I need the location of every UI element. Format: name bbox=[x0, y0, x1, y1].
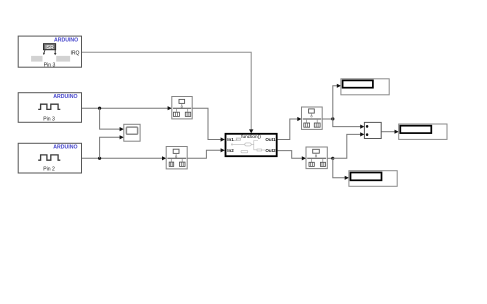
wire Pin2 to block C bbox=[82, 156, 167, 160]
wire Pin3 to block A bbox=[82, 106, 172, 110]
wire junction to scope in1 bbox=[100, 108, 124, 131]
svg-text:ARDUINO: ARDUINO bbox=[54, 38, 78, 44]
block D rate transition right-top bbox=[302, 107, 323, 129]
wire junction to Display1 bbox=[333, 84, 341, 119]
svg-text:In1: In1 bbox=[227, 137, 234, 142]
block Digital Input Pin 3 bbox=[18, 93, 81, 123]
block C rate transition bottom bbox=[166, 147, 187, 169]
block Display2 bbox=[399, 124, 447, 139]
wire IRQ to trigger bbox=[82, 52, 251, 130]
svg-text:Pin 2: Pin 2 bbox=[43, 167, 55, 173]
block Display3 bbox=[349, 171, 397, 187]
wire block D to junction bbox=[322, 118, 333, 120]
svg-text:Pin 3: Pin 3 bbox=[43, 116, 55, 122]
junction node E out bbox=[331, 157, 334, 160]
junction node Pin3 bbox=[98, 107, 101, 110]
wire mux to Display2 bbox=[381, 130, 398, 134]
block B scope bbox=[124, 124, 140, 141]
wire junction to Display3 bbox=[333, 158, 349, 180]
wire block C to In2 bbox=[187, 148, 225, 158]
junction node Pin2 bbox=[98, 157, 101, 160]
block Digital Input Pin 2 bbox=[18, 143, 81, 173]
wire block E to junction bbox=[327, 157, 333, 159]
block Display1 bbox=[341, 79, 389, 95]
svg-text:Out1: Out1 bbox=[265, 137, 276, 142]
svg-text:Pin 3: Pin 3 bbox=[44, 63, 56, 69]
junction node D out bbox=[331, 117, 334, 120]
wire junction to scope in2 bbox=[100, 135, 124, 158]
block subsystem function-call bbox=[226, 129, 277, 156]
wire Out1 to block D bbox=[278, 117, 302, 140]
block A rate transition top bbox=[172, 97, 192, 119]
svg-text:Out2: Out2 bbox=[265, 148, 276, 153]
svg-text:ARDUINO: ARDUINO bbox=[53, 94, 77, 100]
block E rate transition right-bottom bbox=[306, 147, 327, 169]
wire Out2 to block E bbox=[278, 151, 306, 161]
svg-text:In2: In2 bbox=[227, 148, 234, 153]
block mux bbox=[364, 122, 381, 138]
svg-text:ISR: ISR bbox=[45, 45, 54, 51]
block External Interrupt Pin 3 bbox=[18, 36, 81, 69]
wire block A to In1 bbox=[192, 108, 225, 141]
svg-text:IRQ: IRQ bbox=[70, 50, 79, 56]
svg-text:function(): function() bbox=[241, 134, 261, 139]
wire junction to mux in2 bbox=[333, 132, 365, 158]
svg-text:ARDUINO: ARDUINO bbox=[53, 145, 77, 151]
wire junction to mux in1 bbox=[333, 119, 365, 129]
